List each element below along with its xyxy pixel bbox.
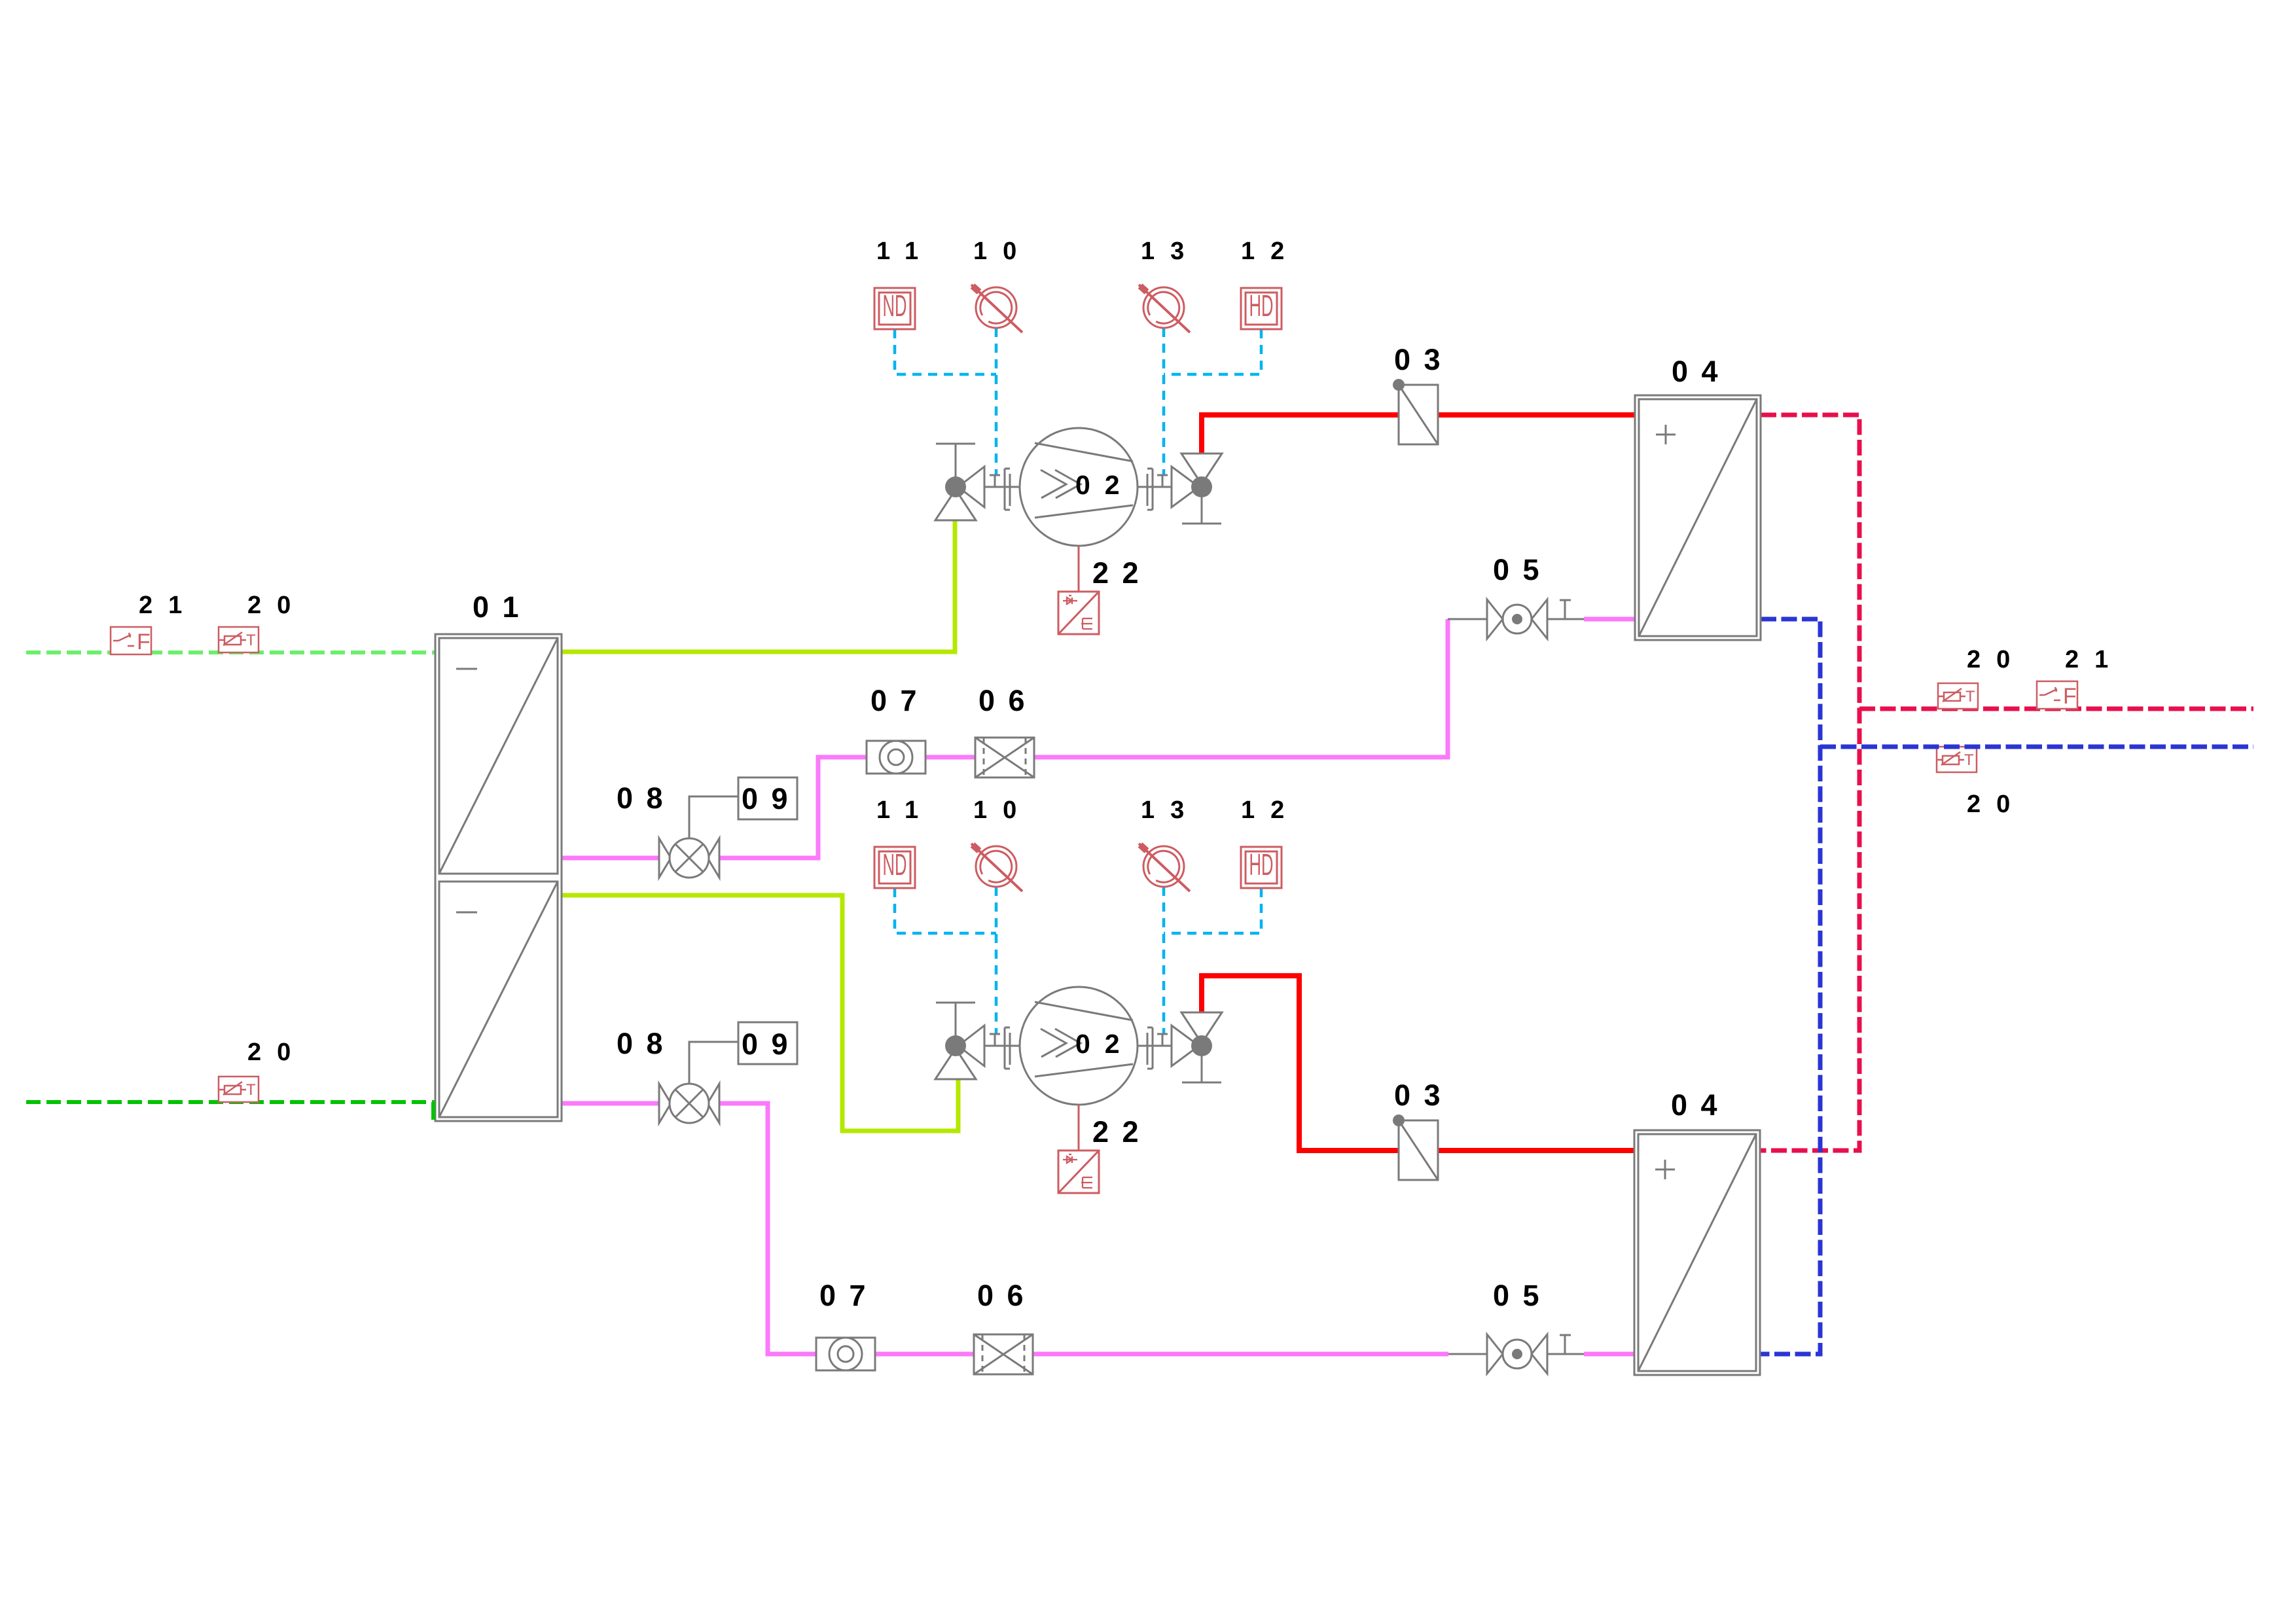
wire: magenta 07 to 06 (bottom) [874,1352,975,1357]
wire: liquid line magenta evaporator to expansion valve (top) [562,856,661,861]
wire: liquid line magenta evaporator to expansion valve (bottom) [562,1101,661,1106]
svg-text:T: T [246,632,256,649]
svg-text:ND: ND [883,847,907,882]
wire: gray link valve08 to controller 09 (bottom) [689,1042,738,1084]
capillary stub [990,1034,1000,1046]
svg-text:11: 11 [876,238,934,265]
instrument 21L (flow switch F) [111,627,151,654]
compressor 02 [1020,428,1138,546]
svg-text:13: 13 [1141,238,1200,265]
svg-text:F: F [2063,684,2077,709]
filter drier 06 [975,738,1034,777]
svg-text:20: 20 [1967,646,2026,673]
wire: hot return dashed blue branch to right edge [1820,745,2253,749]
wire: compressor suction pipe gray (top) [984,486,1021,488]
instrument 11 (ND pressure switch box) [874,847,915,888]
wire: magenta 07 to 06 (top) [924,755,977,760]
svg-text:08: 08 [617,1027,676,1060]
wire: liquid line magenta 08 to 07 (top) [717,757,868,858]
pipe coupling [1005,469,1010,510]
wire: gray stubs + magenta into condenser (bottom) [1448,1353,1487,1355]
expansion valve 08 [659,838,719,878]
wire: discharge red line (bottom unit) [1202,976,1401,1150]
instrument 12 (HD pressure switch box) [1241,847,1282,888]
controller 09 [738,1022,797,1064]
svg-text:04: 04 [1671,1088,1731,1122]
instrument 20LB (temperature sensor T) [219,1077,259,1102]
service valve (discharge) [1172,1012,1222,1082]
capillary stub [990,475,1000,487]
instrument 10 (pressure gauge crossed) [971,285,1022,332]
instrument 13 (pressure gauge crossed) [1139,285,1190,332]
wire: suction line lime (top unit) [562,520,955,652]
wire: magenta 06 to riser and valve 05 (top) [1033,619,1448,757]
instrument 21R (flow switch F) [2037,681,2077,709]
svg-text:12: 12 [1241,238,1300,265]
pipe coupling [1147,1027,1153,1069]
svg-text:07: 07 [870,684,930,717]
svg-text:03: 03 [1394,343,1454,376]
wire: cold source return dashed dark green (bottom) [26,1100,435,1104]
instrument 10 (pressure gauge crossed) [971,844,1022,891]
svg-text:21: 21 [139,592,198,619]
svg-text:08: 08 [617,781,676,815]
service valve (discharge) [1172,454,1222,524]
wire: gray link valve08 to controller 09 (top) [689,796,738,838]
wire: thin salmon inverter feed (top) [1078,546,1080,592]
filter/check 03 [1393,1115,1438,1180]
pipe coupling [1005,1027,1010,1069]
svg-text:HD: HD [1249,847,1274,882]
svg-text:ND: ND [883,289,907,323]
svg-text:06: 06 [977,1279,1037,1312]
wire: cyan capillary lines (top unit) [895,328,1261,475]
wire: green stub at evaporator corner [431,1102,435,1120]
svg-text:01: 01 [473,590,532,624]
service valve (suction) [935,444,984,520]
frequency inverter 22 [1058,1150,1099,1193]
wire: suction line lime (bottom unit) [562,895,958,1131]
svg-text:T: T [1964,751,1974,769]
sight glass 07 [867,741,925,774]
svg-text:22: 22 [1092,556,1152,590]
wire: thin salmon inverter feed (bottom) [1078,1105,1080,1150]
svg-text:HD: HD [1249,289,1274,323]
svg-text:02: 02 [1075,1029,1134,1059]
wire: cold source supply dashed light green (top) [26,651,435,654]
svg-text:05: 05 [1493,553,1552,586]
svg-text:20: 20 [247,592,306,619]
heat exchanger / condenser 04 [1635,395,1761,640]
wire: compressor discharge pipe gray (top) [1137,486,1172,488]
svg-text:02: 02 [1075,470,1134,500]
shut-off valve 05 [1487,1334,1571,1374]
pipe coupling [1147,469,1153,510]
capillary stub [1157,475,1168,487]
svg-text:04: 04 [1672,355,1731,388]
wire: magenta 06 to valve 05 (bottom) [1031,1352,1448,1357]
wire: discharge red line (top unit) [1202,415,1401,456]
svg-text:21: 21 [2065,646,2124,673]
wire: magenta 08 to 07 (bottom) [717,1103,817,1354]
wire: hot supply dashed crimson branch to right edge [1859,707,2253,711]
instrument 20R2 (temperature sensor T) [1937,747,1977,772]
shut-off valve 05 [1487,599,1571,639]
svg-text:10: 10 [973,238,1032,265]
instrument 20L (temperature sensor T) [219,627,259,652]
svg-text:T: T [246,1081,256,1099]
instrument 13 (pressure gauge crossed) [1139,844,1190,891]
svg-text:11: 11 [876,796,934,824]
svg-text:09: 09 [742,782,801,815]
sight glass 07 [816,1338,875,1370]
wire: compressor discharge pipe gray (bottom) [1137,1045,1172,1047]
heat exchanger / condenser 04b [1634,1130,1760,1375]
svg-text:10: 10 [973,796,1032,824]
svg-text:05: 05 [1493,1279,1552,1312]
wire: gray stub + magenta into condenser (top) [1448,618,1487,620]
instrument 12 (HD pressure switch box) [1241,288,1282,329]
instrument 20R1 (temperature sensor T) [1938,683,1978,709]
filter/check 03 [1393,379,1438,444]
compressor 02 [1020,987,1138,1105]
svg-text:03: 03 [1394,1079,1454,1112]
svg-text:20: 20 [247,1039,306,1066]
svg-text:22: 22 [1092,1115,1152,1149]
svg-text:13: 13 [1141,796,1200,824]
controller 09 [738,777,797,819]
wire: hot supply dashed crimson loop [1761,415,1859,1150]
svg-text:09: 09 [742,1027,801,1061]
filter drier 06 [974,1334,1033,1374]
wire: hot return dashed blue loop [1760,619,1820,1354]
svg-text:06: 06 [978,684,1038,717]
svg-text:12: 12 [1241,796,1300,824]
svg-text:20: 20 [1967,791,2026,818]
heat exchanger / evaporator 01 [435,634,562,1121]
svg-text:T: T [1965,688,1975,705]
capillary stub [1157,1034,1168,1046]
wire: cyan capillary lines (bottom unit) [895,887,1261,1034]
expansion valve 08 [659,1084,719,1123]
svg-text:07: 07 [819,1279,879,1312]
instrument 11 (ND pressure switch box) [874,288,915,329]
svg-text:F: F [137,630,151,654]
service valve (suction) [935,1003,984,1079]
frequency inverter 22 [1058,592,1099,634]
wire: compressor suction pipe gray (bottom) [984,1045,1021,1047]
